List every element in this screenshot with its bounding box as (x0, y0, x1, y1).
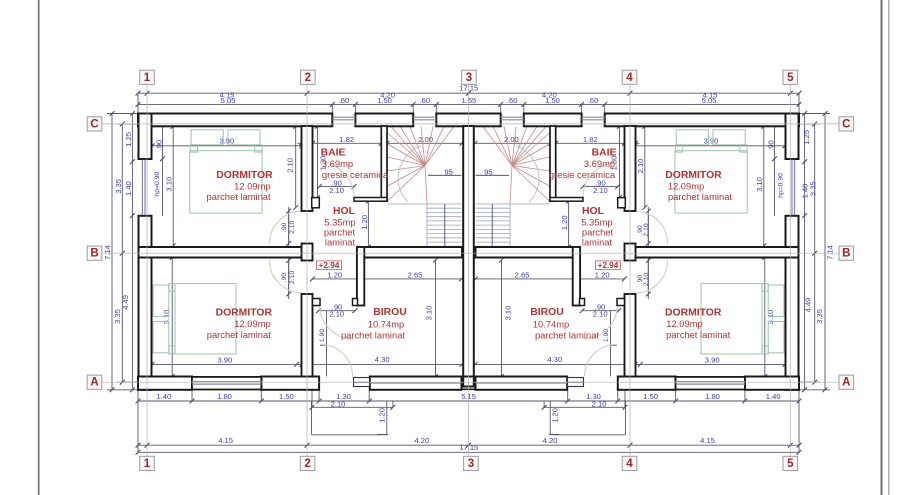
svg-text:DORMITOR: DORMITOR (665, 307, 722, 318)
dim 3.10 birou right (501, 260, 503, 377)
baie south partition left (354, 198, 387, 202)
stair winder fan right unit (512, 166, 550, 202)
bottom dimension row 2 left (2.10) (312, 406, 393, 408)
svg-text:2.65: 2.65 (408, 270, 423, 279)
grid axis line 4 (629, 85, 631, 456)
svg-text:5: 5 (787, 458, 794, 470)
svg-text:parchet laminat: parchet laminat (207, 191, 271, 202)
svg-text:BIROU: BIROU (530, 307, 563, 318)
svg-text:2.10: 2.10 (593, 186, 608, 195)
dim 1.90 corridor right (611, 344, 618, 346)
svg-text:parchet laminat: parchet laminat (535, 330, 599, 341)
left dim column 1.25/1.40/4.49 (131, 114, 133, 390)
door arc birou corridor left (320, 305, 354, 339)
svg-text:1.90: 1.90 (319, 329, 326, 342)
svg-text:B: B (842, 248, 850, 260)
grid bubble 4 (622, 456, 637, 470)
svg-text:2.10: 2.10 (329, 186, 344, 195)
bed (dormitor bottom) (701, 284, 784, 354)
svg-text:2.65: 2.65 (515, 270, 530, 279)
south wall pier 1.50 right (618, 377, 676, 390)
svg-text:3.90: 3.90 (219, 137, 234, 146)
bottom 1.20 vertical dim right (549, 401, 551, 435)
grid bubble 1 (140, 456, 155, 470)
south wall pier 1.40 right (745, 377, 799, 390)
grid bubble A (87, 375, 102, 389)
svg-text:3: 3 (468, 458, 474, 470)
svg-text:4.20: 4.20 (543, 436, 558, 445)
svg-text:parchet laminat: parchet laminat (207, 329, 271, 340)
sheet frame right borders (881, 0, 883, 495)
dim .90/2.10 baie door left (319, 186, 354, 188)
grid bubble A (839, 375, 854, 389)
bed (dormitor bottom) (153, 284, 236, 354)
svg-text:1.50: 1.50 (643, 392, 658, 401)
window east wall glazing (791, 159, 793, 216)
door arc birou corridor right (584, 305, 618, 339)
svg-text:gresie ceramica: gresie ceramica (322, 169, 389, 180)
svg-text:5.05: 5.05 (221, 96, 236, 105)
svg-text:12.09mp: 12.09mp (234, 181, 270, 192)
grid axis line 5 (789, 85, 791, 456)
svg-text:BAIE: BAIE (592, 148, 617, 159)
B wall left unit west part (139, 247, 302, 258)
birou east wall right unit (573, 247, 580, 306)
svg-text:1: 1 (144, 458, 151, 470)
stair wall left unit (381, 126, 387, 201)
dim row 2.00/1.82/25 right (475, 142, 640, 144)
dim 2.65/1.20 corridor right (476, 278, 625, 280)
svg-text:.90: .90 (281, 273, 288, 283)
north wall piece left-1 (138, 114, 332, 127)
dim 1.20 hol right (568, 201, 570, 247)
svg-text:+2.94: +2.94 (319, 261, 340, 270)
dim 2.10 wall segment left (295, 126, 297, 207)
grid bubble B (839, 246, 854, 260)
dim row 25/1.82/2.00 left (298, 142, 463, 144)
svg-text:laminat: laminat (325, 237, 356, 248)
grid-2 wall door jamb block (302, 244, 313, 261)
north wall piece right-2 (524, 114, 582, 127)
window south big glazed box left (370, 377, 462, 390)
grid bubble 4 (622, 70, 637, 84)
west wall lower piece (139, 216, 152, 390)
grid bubble 5 (783, 70, 798, 84)
grid axis line C (102, 123, 839, 125)
window north .60 left-1 glazing (332, 116, 355, 118)
svg-text:parchet laminat: parchet laminat (666, 329, 730, 340)
stair eye curve (516, 146, 539, 202)
svg-text:2.10: 2.10 (285, 158, 294, 173)
bottom overall dimension 17.15 (138, 451, 799, 453)
dim .90/2.10 dormitor door bottom right (647, 261, 649, 295)
svg-text:95: 95 (444, 167, 452, 176)
svg-text:BAIE: BAIE (321, 148, 346, 159)
svg-text:12.09mp: 12.09mp (234, 318, 270, 329)
svg-text:4.15: 4.15 (218, 436, 233, 445)
bottom dimension row 1 (1.40 1.80 1.50 1.30 5.15 ...) (138, 400, 799, 402)
dim 1.20/2.65 corridor left (313, 278, 462, 280)
svg-text:3.90: 3.90 (217, 355, 232, 364)
svg-text:3: 3 (466, 72, 472, 84)
B wall right unit west part (476, 247, 577, 258)
svg-text:hp=0.90: hp=0.90 (154, 172, 161, 197)
svg-text:4.30: 4.30 (375, 355, 390, 364)
svg-text:parchet laminat: parchet laminat (341, 330, 405, 341)
svg-text:3.35: 3.35 (808, 181, 817, 196)
window south big glazed box right (476, 377, 568, 390)
svg-text:1.25: 1.25 (124, 132, 133, 147)
dim 3.10 birou left (435, 260, 437, 377)
bottom 1.20 vertical dim left (386, 401, 388, 435)
svg-text:3.69mp: 3.69mp (584, 158, 615, 169)
svg-text:95: 95 (484, 167, 492, 176)
svg-text:1.20: 1.20 (327, 270, 342, 279)
svg-text:C: C (842, 118, 850, 130)
svg-text:4.30: 4.30 (547, 355, 562, 364)
stair walk line 95 (428, 174, 462, 176)
bed (dormitor top) (675, 130, 747, 213)
left dim column 3.35/3.35 (121, 124, 123, 382)
baie door jamb block left (312, 198, 320, 208)
south wall party pier (463, 377, 474, 387)
svg-text:1.82: 1.82 (339, 135, 354, 144)
grid bubble C (839, 117, 854, 131)
svg-text:2.10: 2.10 (643, 223, 650, 236)
party wall (463, 126, 474, 377)
grid bubble 1 (140, 70, 155, 84)
birou door stub right (617, 299, 625, 306)
svg-text:12.09mp: 12.09mp (666, 318, 702, 329)
grid bubble B (87, 246, 102, 260)
south wall pier 1.40 left (138, 377, 192, 390)
svg-text:1.25: 1.25 (802, 130, 811, 145)
svg-text:DORMITOR: DORMITOR (216, 307, 273, 318)
svg-text:2.10: 2.10 (331, 400, 346, 409)
svg-text:C: C (90, 118, 98, 130)
right dim column 3.35/3.35 (814, 124, 816, 382)
svg-text:7.14: 7.14 (103, 245, 112, 260)
birou door jamb foot left (353, 299, 358, 306)
bed (dormitor top) (190, 130, 262, 213)
top dimension row 2 (5.05 .60 1.50 .60 1.65 ...) (138, 103, 799, 105)
dim 3.90 bottom-right room (635, 363, 785, 365)
dim 3.90 top-right room (635, 145, 785, 147)
dim .90/2.10 birou door left (318, 310, 355, 312)
svg-text:.90: .90 (154, 140, 163, 151)
grid-2 wall upper segment (302, 126, 313, 211)
grid bubble 2 (301, 70, 316, 84)
dim 4.30 birou left (297, 363, 462, 365)
level marker +2.94 left (317, 261, 342, 270)
east wall lower piece (786, 216, 799, 390)
dim 3.90 top-left room (152, 145, 302, 147)
stair flight treads left unit (388, 203, 428, 205)
window south 1.80 right (676, 377, 745, 390)
svg-text:3.35: 3.35 (113, 309, 122, 324)
svg-text:3.69mp: 3.69mp (322, 158, 353, 169)
dim 3.10 top-left room (172, 126, 174, 246)
dim 2.10 wall segment right (644, 126, 646, 207)
svg-text:hp=0.90: hp=0.90 (777, 173, 784, 198)
top extension lines (137, 93, 139, 113)
grid-4 wall lower segment (625, 294, 636, 377)
stair eye curve (398, 146, 421, 202)
svg-text:1.20: 1.20 (595, 270, 610, 279)
svg-text:2: 2 (305, 72, 311, 84)
svg-text:2.10: 2.10 (289, 271, 296, 284)
door arc baie right (583, 163, 618, 198)
svg-text:2.10: 2.10 (289, 220, 296, 233)
door arc dormitor top-left (270, 211, 303, 244)
svg-text:gresie ceramica: gresie ceramica (549, 169, 616, 180)
svg-text:1.82: 1.82 (583, 135, 598, 144)
dim .90/2.10 baie door right (583, 186, 618, 188)
svg-text:B: B (90, 248, 98, 260)
window west wall glazing (141, 159, 143, 216)
baie south partition right (550, 198, 583, 202)
door arc birou south right (585, 344, 617, 376)
bottom extension lines (191, 390, 193, 401)
svg-text:.60: .60 (507, 96, 518, 105)
grid axis line 1 (146, 85, 148, 456)
svg-text:4: 4 (626, 72, 633, 84)
svg-text:1: 1 (144, 72, 151, 84)
window north .60 right-1 glazing (582, 116, 605, 118)
svg-text:3.35: 3.35 (815, 309, 824, 324)
svg-text:10.74mp: 10.74mp (368, 319, 404, 330)
svg-text:A: A (842, 377, 850, 389)
svg-text:4.20: 4.20 (414, 436, 429, 445)
birou door jamb foot right (580, 299, 585, 306)
svg-text:2: 2 (304, 458, 310, 470)
grid bubble 3 (462, 70, 477, 84)
svg-text:7.14: 7.14 (825, 245, 834, 260)
svg-text:10.74mp: 10.74mp (533, 319, 569, 330)
svg-text:1.20: 1.20 (360, 215, 369, 230)
grid-4 wall upper segment (625, 126, 636, 211)
dim .90/2.10 dormitor door bottom left (288, 261, 290, 295)
svg-text:.60: .60 (588, 96, 599, 105)
stair wall right unit (550, 126, 556, 201)
dim .90/2.10 dormitor door top right (647, 207, 649, 299)
door arc dormitor bottom-left (270, 261, 303, 294)
svg-text:+2.94: +2.94 (598, 261, 619, 270)
door arc dormitor bottom-right (635, 261, 668, 294)
svg-text:1.50: 1.50 (377, 96, 392, 105)
svg-text:3.90: 3.90 (704, 137, 719, 146)
svg-text:1.50: 1.50 (545, 96, 560, 105)
svg-text:3.90: 3.90 (705, 355, 720, 364)
dim .90 window sill left (162, 124, 164, 159)
svg-text:BIROU: BIROU (373, 307, 406, 318)
south wall pier 1.50 left (261, 377, 319, 390)
svg-text:2.10: 2.10 (329, 310, 344, 319)
grid axis line 3 (468, 84, 470, 457)
svg-text:1.40: 1.40 (156, 392, 171, 401)
svg-text:5.05: 5.05 (702, 96, 717, 105)
svg-text:4: 4 (626, 458, 633, 470)
stair walk line 95 (476, 174, 510, 176)
svg-text:1.20: 1.20 (378, 408, 387, 423)
grid bubble 3 (464, 456, 479, 470)
svg-text:3.35: 3.35 (114, 179, 123, 194)
svg-text:1.80: 1.80 (705, 392, 720, 401)
svg-text:laminat: laminat (582, 237, 613, 248)
dim 1.80 baie left (317, 126, 319, 197)
door arc dormitor top-right (635, 211, 668, 244)
svg-text:1.40: 1.40 (766, 392, 781, 401)
door arc baie left (320, 163, 355, 198)
B wall left unit east part (361, 247, 463, 258)
svg-text:1.40: 1.40 (124, 181, 133, 196)
svg-text:1.20: 1.20 (551, 408, 560, 423)
svg-text:5: 5 (787, 72, 794, 84)
svg-text:4.15: 4.15 (700, 436, 715, 445)
grid axis line A (102, 381, 839, 383)
dim 3.90 bottom-left room (152, 363, 302, 365)
dim 3.10 bottom-right room (764, 258, 766, 377)
svg-text:1.50: 1.50 (279, 392, 294, 401)
grid axis line 2 (306, 85, 308, 456)
bottom dimension row 2 right (2.10) (544, 406, 625, 408)
svg-text:1.80: 1.80 (217, 392, 232, 401)
window north .60 left-2 glazing (413, 116, 436, 118)
birou west wall left unit (357, 247, 364, 306)
dim .90/2.10 birou door right (582, 310, 619, 312)
dim 3.10 bottom-left room (171, 258, 173, 377)
svg-text:4.49: 4.49 (121, 295, 130, 310)
svg-text:12.09mp: 12.09mp (668, 181, 704, 192)
birou door stub left (313, 299, 321, 306)
svg-text:3.10: 3.10 (424, 306, 433, 321)
grid axis line B (102, 252, 839, 254)
svg-text:2.10: 2.10 (592, 400, 607, 409)
dim .90 window sill right (774, 124, 776, 159)
dim 3.10 top-right room (763, 126, 765, 246)
B wall right unit east part (636, 247, 799, 258)
east wall upper piece (786, 114, 799, 160)
svg-text:.90: .90 (281, 222, 288, 232)
grid bubble C (87, 117, 102, 131)
grid-4 wall door jamb block (625, 244, 636, 261)
dim 1.20 hol left (367, 201, 369, 247)
south wall outer face under party pier (461, 388, 476, 390)
svg-text:1.90: 1.90 (603, 329, 610, 342)
svg-text:2.10: 2.10 (593, 310, 608, 319)
svg-text:.90: .90 (767, 140, 776, 151)
grid bubble 5 (783, 456, 798, 470)
svg-text:3.10: 3.10 (755, 177, 764, 192)
svg-text:parchet laminat: parchet laminat (668, 191, 732, 202)
door arc birou south left (321, 344, 353, 376)
svg-text:1.40: 1.40 (801, 184, 810, 199)
window south sliver right (568, 378, 584, 387)
stair winder fan left unit (388, 166, 426, 202)
level marker +2.94 right (596, 261, 621, 270)
north wall piece left-2 (355, 114, 413, 127)
svg-text:A: A (90, 377, 98, 389)
sheet frame left border (38, 0, 40, 495)
dim 4.30 birou right (475, 363, 640, 365)
grid-2 wall lower segment (302, 294, 313, 377)
svg-text:1.65: 1.65 (462, 96, 477, 105)
left dim column 7.14 (111, 114, 113, 390)
stair flight treads right unit (510, 203, 550, 205)
right dim column 1.25/1.40/4.49 (804, 114, 806, 390)
dim .90/2.10 dormitor door top left (288, 207, 290, 299)
svg-text:.60: .60 (339, 96, 350, 105)
grid bubble 2 (300, 456, 315, 470)
west wall upper piece (139, 114, 152, 160)
svg-text:2.10: 2.10 (636, 159, 645, 174)
svg-text:4.49: 4.49 (804, 298, 813, 313)
baie door jamb block right (618, 198, 626, 208)
north wall piece center (436, 114, 500, 127)
dim 1.90 corridor left (320, 344, 327, 346)
north wall piece right-1 (605, 114, 799, 127)
right dim column 7.14 (824, 114, 826, 390)
svg-text:1.20: 1.20 (560, 215, 569, 230)
window north .60 right-2 glazing (501, 116, 524, 118)
svg-text:3.10: 3.10 (504, 306, 513, 321)
dim 1.80 baie right (619, 126, 621, 197)
svg-text:.60: .60 (420, 96, 431, 105)
window south 1.80 left (192, 377, 261, 390)
window south sliver left (354, 378, 370, 387)
svg-text:3.10: 3.10 (165, 177, 174, 192)
bottom dimension row 3 (4.15 4.20 4.20 4.15) (138, 444, 799, 446)
svg-text:2.10: 2.10 (643, 273, 650, 286)
top dimension row 1 (4.15 / 4.20 / 4.20 / 4.15) (138, 92, 799, 94)
